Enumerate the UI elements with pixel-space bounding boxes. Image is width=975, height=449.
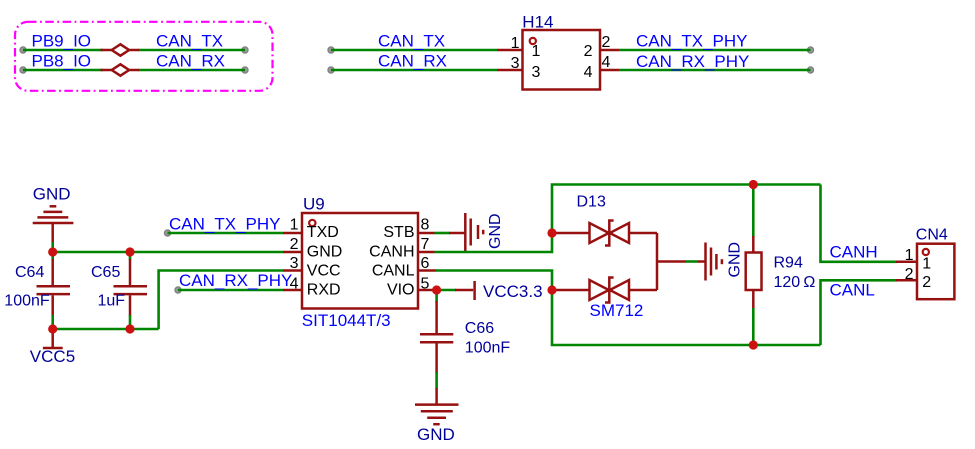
C64 value [4,293,50,310]
junction GND rail [48,247,57,256]
U9 pin4 lead [283,289,303,292]
svg-text:GND: GND [33,185,71,204]
H14 designator [522,12,553,31]
svg-text:C65: C65 [91,264,120,281]
wire CAN_TX_PHY to U9 pin1 [168,232,284,235]
U9 pin name TXD [307,224,339,241]
U9 pin5 lead [418,289,437,292]
svg-text:CAN_TX_PHY: CAN_TX_PHY [636,32,747,51]
U9 pin name RXD [307,282,341,299]
H14 pin number 2 inside [584,43,593,60]
svg-text:CAN_TX_PHY: CAN_TX_PHY [169,215,280,234]
svg-text:GND: GND [417,425,455,444]
svg-text:GND: GND [487,213,504,249]
svg-text:H14: H14 [522,12,553,31]
node dot CAN_TX mid [328,47,334,53]
wire PB9_IO / CAN_TX [23,49,245,52]
svg-text:CAN_TX: CAN_TX [156,32,223,51]
U9 pin name STB [383,224,414,241]
node dot CAN_TX [242,47,248,53]
wire CANH net [435,185,821,253]
U9 pin8 lead [418,232,435,235]
svg-text:VCC: VCC [307,262,341,279]
label PB9_IO [32,32,92,51]
ground symbol pin8 [449,213,483,251]
capacitor C64 [37,252,71,329]
label CAN_RX left [156,52,225,71]
svg-text:100nF: 100nF [4,293,50,310]
label GND bottom [417,425,455,444]
junction C64 bottom [48,324,57,333]
svg-text:SM712: SM712 [590,301,644,320]
svg-text:CANH: CANH [830,243,878,262]
label VCC3.3 [483,282,543,301]
junction C65 bottom [125,324,134,333]
svg-text:CAN_RX: CAN_RX [378,52,447,71]
label CANH [830,243,878,262]
H14 pin number 3 outside [511,55,520,72]
U9 pin6 lead [418,269,436,272]
H14 pin1 lead [497,49,523,52]
svg-text:PB8_IO: PB8_IO [32,52,92,71]
label CAN_RX_PHY top [636,52,749,71]
svg-text:R94: R94 [774,255,803,272]
svg-text:D13: D13 [577,193,606,210]
svg-text:1uF: 1uF [98,293,126,310]
C66 designator [465,320,494,337]
ground symbol top-left [33,206,74,243]
wire STB [435,232,451,235]
wire GND stub [51,242,54,252]
CN4 designator [916,227,948,244]
C66 value [465,340,511,357]
U9 pin number 8 [421,217,430,234]
node dot CAN_RX_PHY left [175,287,181,293]
label GND mid [727,242,744,278]
node dot CAN_RX_PHY top [807,67,813,73]
wire CAN_TX to H14 pin1 [331,49,497,52]
node dot CAN_RX mid [328,67,334,73]
wire GND rail to U9 pin2 [53,251,283,254]
svg-text:GND: GND [307,244,343,261]
junction R94 bottom [749,340,758,349]
U9 value [302,311,391,330]
label CAN_TX_PHY left [169,215,280,234]
U9 pin name CANH [369,244,414,261]
CN4 pin number 2 outside [905,266,914,283]
U9 pin number 1 [290,217,299,234]
svg-text:CAN_RX: CAN_RX [156,52,225,71]
CN4 pin1 lead [896,261,917,264]
wire CAN_RX_PHY to U9 pin4 [178,289,283,292]
TVS diode D13 bottom [552,278,657,303]
ground symbol C66 [415,388,459,424]
power flag VCC5 [43,329,63,348]
wire VCC5 to U9 pin3 [159,271,283,330]
svg-text:U9: U9 [303,194,325,213]
label CAN_RX_PHY left [179,271,292,290]
node dot CAN_TX_PHY top [807,47,813,53]
node dot CAN_RX [242,67,248,73]
CN4 pin number 1 outside [905,247,914,264]
wire VCC5 rail [53,328,159,331]
U9 pin number 2 [290,236,299,253]
svg-text:3: 3 [511,55,520,72]
U9 designator [303,194,325,213]
capacitor C65 [114,252,148,329]
C65 designator [91,264,120,281]
ground symbol mid [698,243,722,281]
connector CN4 box [917,244,954,300]
node dot CAN_TX_PHY left [164,230,170,236]
U9 pin name GND [307,244,343,261]
svg-text:1: 1 [905,247,914,264]
net tie diamond row2 [101,64,140,75]
U9 pin number 3 [290,255,299,272]
junction VIO [432,285,441,294]
svg-text:8: 8 [421,217,430,234]
U9 pin number 4 [290,276,299,293]
label CAN_RX mid [378,52,447,71]
harness box (magenta dash-dot) [15,22,273,91]
wire TVS common vertical [656,233,659,290]
H14 pin3 lead [497,69,523,72]
svg-text:1: 1 [532,43,541,60]
C65 value [98,293,126,310]
wire CANL net [436,271,821,346]
H14 pin number 2 outside [602,34,611,51]
H14 pin number 1 inside [532,43,541,60]
svg-text:CAN_TX: CAN_TX [378,32,445,51]
wire VIO node [437,289,456,292]
svg-text:C66: C66 [465,320,494,337]
label CAN_TX left [156,32,223,51]
svg-text:CN4: CN4 [916,227,948,244]
H14 pin number 3 inside [532,64,541,81]
U9 pin2 lead [283,251,303,254]
resistor R94 [746,185,762,346]
U9 pin name VCC [307,262,341,279]
CN4 pin2 lead [896,279,917,282]
U9 pin7 lead [418,251,435,254]
H14 pin number 4 inside [584,64,593,81]
svg-text:7: 7 [421,236,430,253]
svg-text:100nF: 100nF [465,340,511,357]
svg-text:VCC3.3: VCC3.3 [483,282,543,301]
D13 value SM712 [590,301,644,320]
wire CANH to CN4 [821,185,898,262]
node dot PB9_IO [20,47,26,53]
svg-text:VCC5: VCC5 [30,347,75,366]
svg-text:PB9_IO: PB9_IO [32,32,92,51]
node dot PB8_IO [20,67,26,73]
wire CAN_RX to H14 pin3 [331,69,497,72]
C64 designator [15,264,44,281]
label CAN_TX_PHY top [636,32,747,51]
svg-text:3: 3 [290,255,299,272]
wire C66 to GND [435,372,438,389]
svg-text:2: 2 [905,266,914,283]
U9 pin name CANL [372,262,415,279]
svg-text:4: 4 [584,64,593,81]
TVS diode D13 top [552,221,657,246]
svg-text:4: 4 [290,276,299,293]
svg-text:VIO: VIO [387,282,415,299]
wire VIO to C66 [435,290,438,302]
svg-text:2: 2 [290,236,299,253]
H14 pin4 lead [600,69,619,72]
net tie diamond row1 [101,44,140,55]
svg-text:120 Ω: 120 Ω [774,274,816,291]
U9 pin number 6 [421,255,430,272]
svg-text:3: 3 [532,64,541,81]
H14 pin2 lead [600,49,619,52]
U9 pin number 5 [421,276,430,293]
wire CAN_TX_PHY top [619,49,811,52]
label PB8_IO [32,52,92,71]
svg-text:CAN_RX_PHY: CAN_RX_PHY [636,52,749,71]
op-amp U9 box [302,213,418,309]
svg-text:CANL: CANL [372,262,415,279]
junction R94 top [749,180,758,189]
label VCC5 [30,347,75,366]
svg-text:CAN_RX_PHY: CAN_RX_PHY [179,271,292,290]
svg-text:1: 1 [922,255,931,272]
wire CANL to CN4 [821,280,898,345]
svg-text:TXD: TXD [307,224,339,241]
svg-text:1: 1 [511,35,520,52]
svg-text:CANL: CANL [830,281,875,300]
wire PB8_IO / CAN_RX [23,69,245,72]
svg-text:CANH: CANH [369,244,414,261]
R94 designator [774,255,803,272]
svg-text:2: 2 [584,43,593,60]
H14 pin number 1 outside [511,35,520,52]
connector H14 box [523,30,601,90]
U9 pin1 lead [283,232,303,235]
junction SM712 bottom [547,285,556,294]
label CAN_TX mid [378,32,445,51]
D13 designator [577,193,606,210]
svg-text:C64: C64 [15,264,44,281]
U9 pin3 lead [283,269,303,272]
R94 value [774,274,816,291]
U9 pin number 7 [421,236,430,253]
svg-text:2: 2 [602,34,611,51]
power flag VCC3.3 [455,281,475,300]
H14 pin1 indicator [530,38,536,44]
svg-text:RXD: RXD [307,282,341,299]
CN4 pin1 indicator [923,249,929,255]
svg-text:2: 2 [922,274,931,291]
label GND top-left [33,185,71,204]
label GND pin8 [487,213,504,249]
junction C65 top [125,247,134,256]
wire TVS common to GND [657,260,699,263]
junction D13 top [547,228,556,237]
svg-text:STB: STB [383,224,414,241]
wire CAN_RX_PHY top [619,69,811,72]
U9 pin name VIO [387,282,415,299]
CN4 pin number 1 inside [922,255,931,272]
svg-text:SIT1044T/3: SIT1044T/3 [302,311,391,330]
svg-text:1: 1 [290,217,299,234]
U9 pin1 indicator [309,220,315,226]
capacitor C66 [420,301,453,373]
svg-text:GND: GND [727,242,744,278]
label CANL [830,281,875,300]
svg-text:4: 4 [602,54,611,71]
H14 pin number 4 outside [602,54,611,71]
CN4 pin number 2 inside [922,274,931,291]
